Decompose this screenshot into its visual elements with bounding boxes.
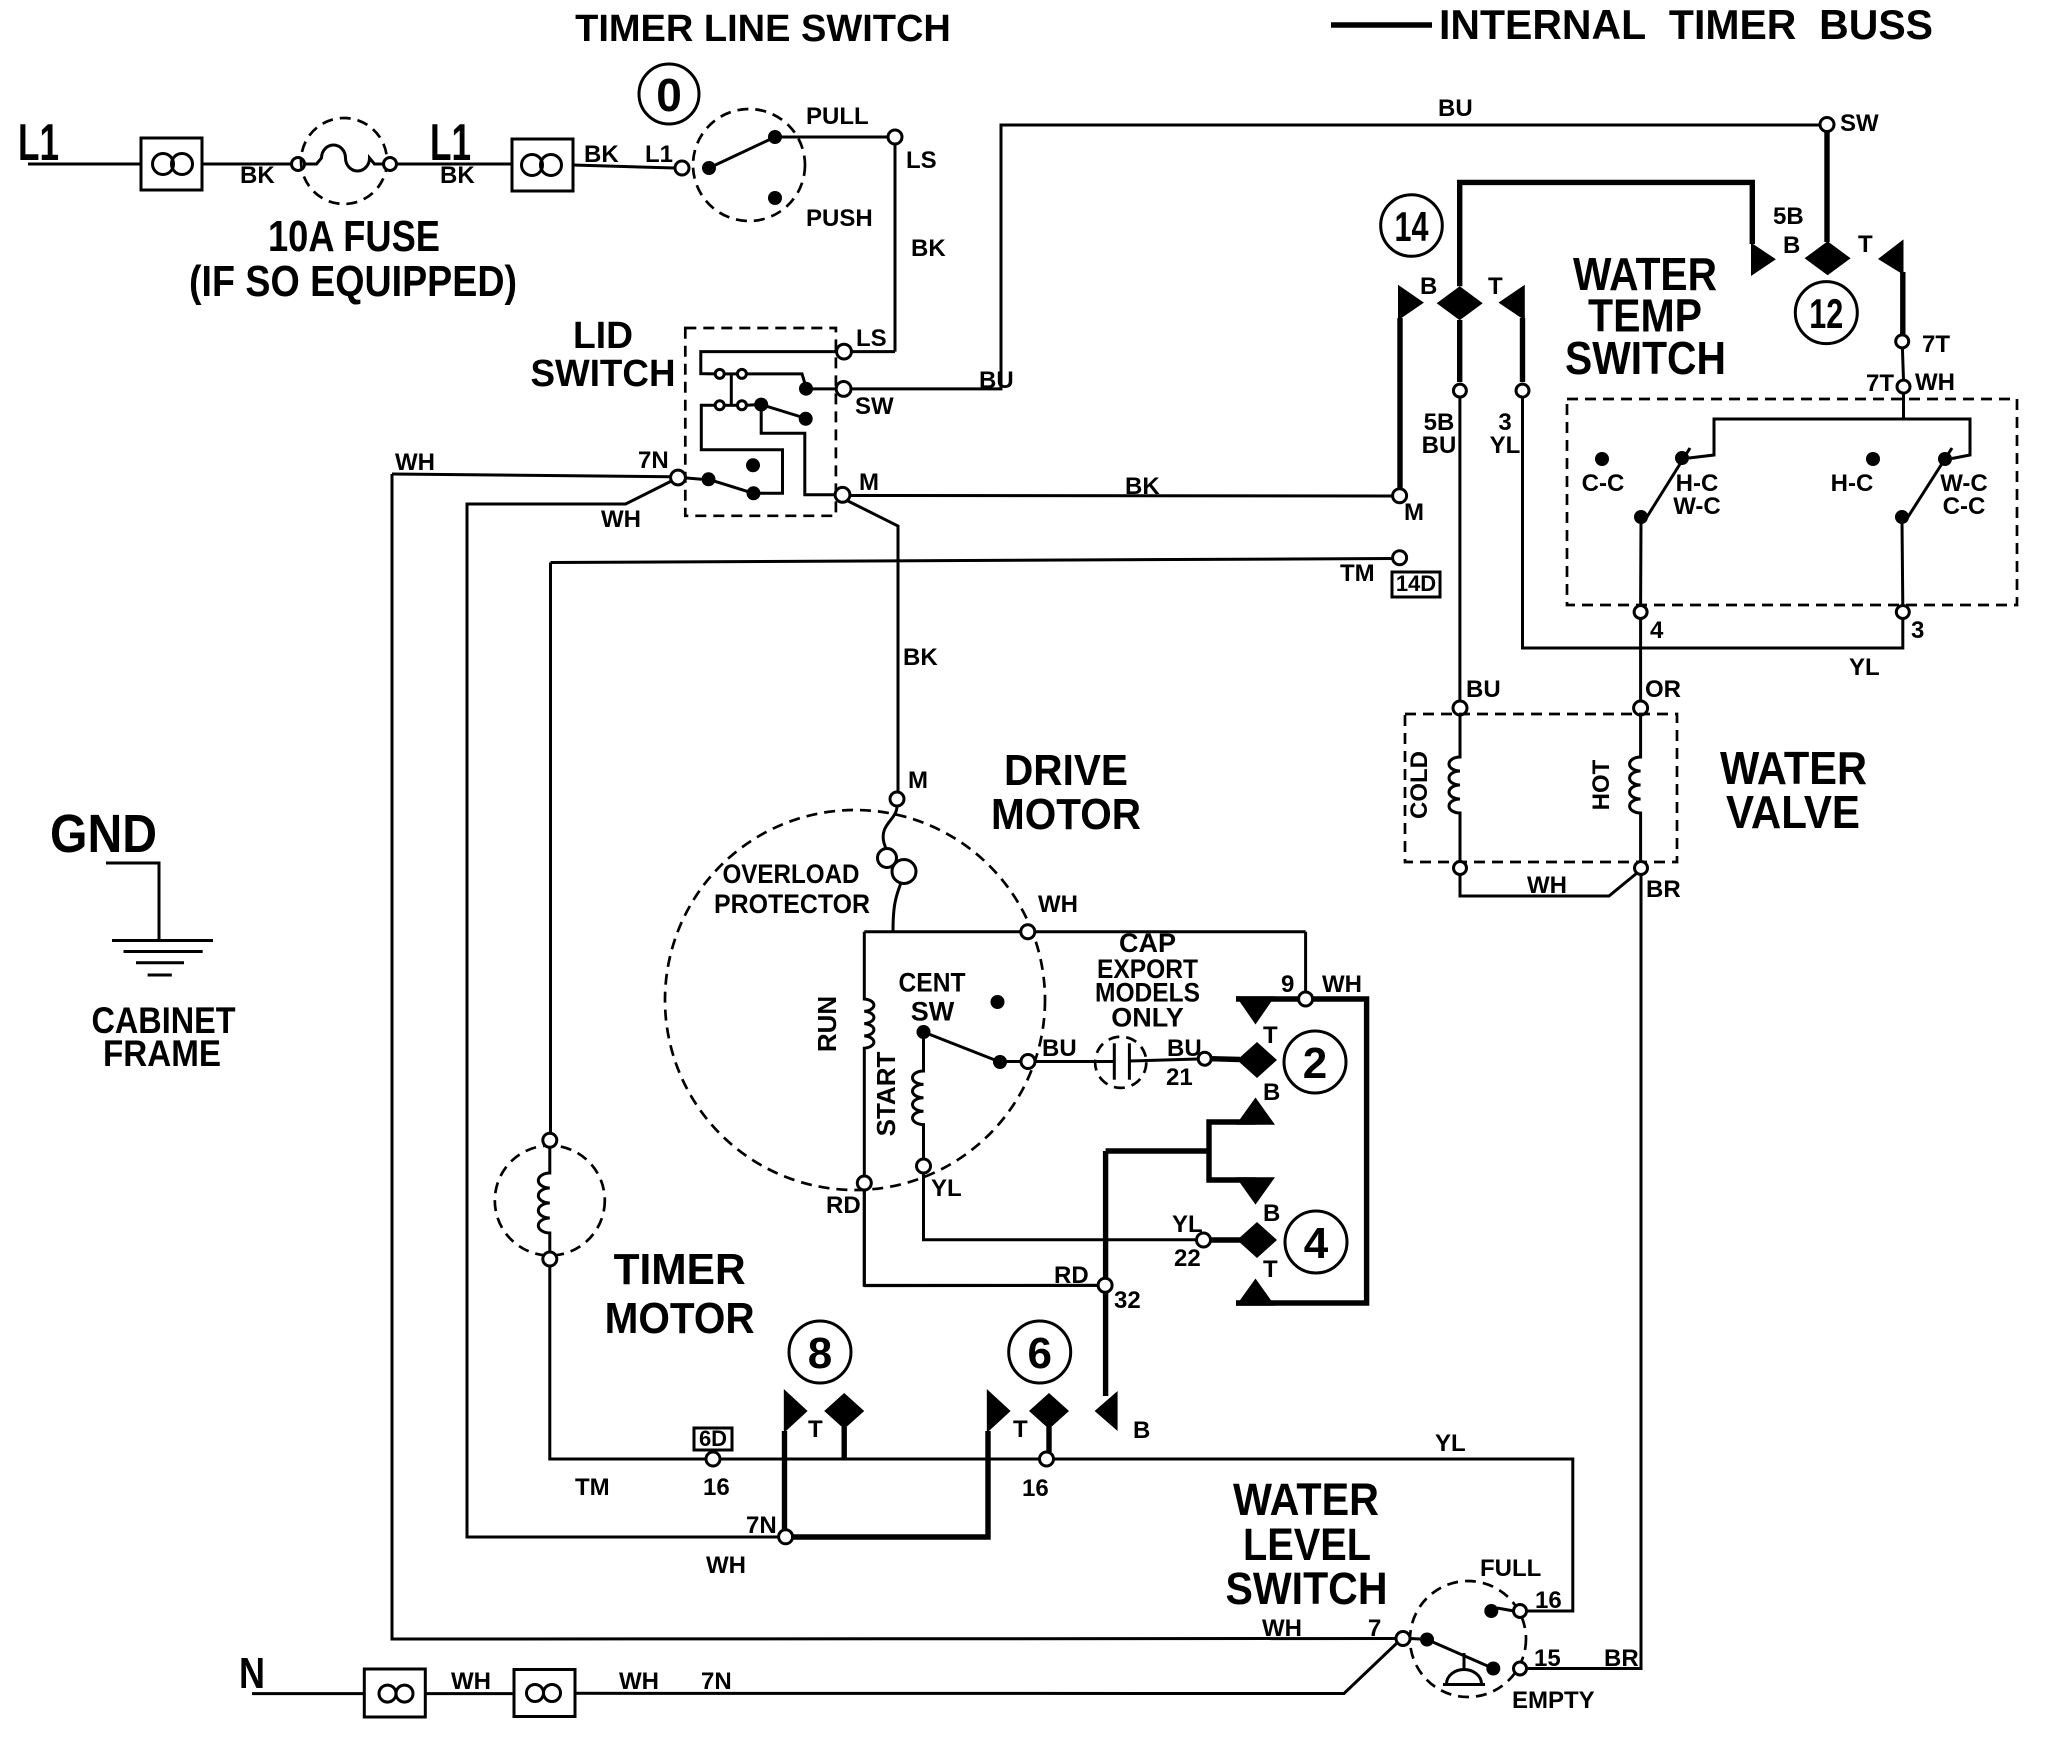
wire BK from M down to drive motor xyxy=(846,500,938,792)
svg-text:RD: RD xyxy=(1054,1262,1089,1289)
fuse 10A terminal left xyxy=(292,158,305,171)
wire 7T WH into switch crossbar xyxy=(1689,393,1904,458)
pivot circle row2 a xyxy=(715,401,724,410)
svg-text:LID: LID xyxy=(573,315,633,357)
contact 14 triangle T side xyxy=(1488,273,1525,320)
legend: internal timer buss sample line xyxy=(1331,22,1432,27)
timer contact diamond 4 xyxy=(1237,1222,1277,1258)
wire row2 to moving contact xyxy=(746,403,756,407)
wire BK connector2 to timer line switch xyxy=(573,141,675,168)
capacitor plates xyxy=(1114,1043,1129,1079)
svg-text:T: T xyxy=(1858,231,1873,258)
timer block 2/4 outline (buss) xyxy=(1236,999,1367,1303)
pivot circle row1 b xyxy=(737,369,746,378)
svg-text:C-C: C-C xyxy=(1582,470,1625,497)
wire 7T to 7T WH xyxy=(1902,348,1903,380)
water valve dashed box xyxy=(1405,714,1677,862)
title TIMER MOTOR xyxy=(605,1245,755,1343)
svg-text:RUN: RUN xyxy=(812,996,842,1052)
bracket triangle down B xyxy=(1236,1177,1280,1227)
wire buss diamond 14 down to 5B terminal xyxy=(1457,320,1462,382)
terminal SW timer xyxy=(1820,110,1879,137)
svg-text:PROTECTOR: PROTECTOR xyxy=(714,889,870,919)
svg-text:9: 9 xyxy=(1281,971,1294,998)
label OVERLOAD PROTECTOR xyxy=(714,859,870,919)
wire link row1 to row2 xyxy=(730,374,733,405)
wire 7 to dot xyxy=(1410,1637,1420,1641)
timer contact diamond 2 xyxy=(1237,1042,1277,1078)
wire BU from SW to top right xyxy=(851,95,1820,394)
svg-text:SWITCH: SWITCH xyxy=(1226,1563,1388,1614)
label YL 22 xyxy=(1172,1211,1203,1272)
svg-text:WATER: WATER xyxy=(1233,1474,1379,1525)
wire BK from M terminal to timer M xyxy=(850,473,1393,500)
svg-text:BK: BK xyxy=(584,141,619,168)
fuse label 10A FUSE (IF SO EQUIPPED) xyxy=(189,212,517,306)
wire buss diamond 6 to 16 terminal xyxy=(1046,1427,1051,1452)
terminal BU cent switch xyxy=(1021,1035,1077,1069)
svg-text:M: M xyxy=(1404,499,1424,526)
svg-text:GND: GND xyxy=(50,804,157,864)
wire row2 link xyxy=(724,404,737,407)
svg-text:PUSH: PUSH xyxy=(806,205,873,232)
contact 14 diamond xyxy=(1437,286,1483,320)
svg-text:WH: WH xyxy=(706,1552,746,1579)
svg-text:OR: OR xyxy=(1645,676,1681,703)
wire dot to terminal 3 xyxy=(1901,522,1905,606)
timer block bottom triangle T xyxy=(1236,1256,1278,1306)
wire buss T side 12 down to 7T xyxy=(1900,272,1905,334)
svg-text:14D: 14D xyxy=(1396,571,1436,596)
connector plug symbol (L1 line) xyxy=(141,138,202,190)
pivot circle row1 a xyxy=(715,369,724,378)
PUSH contact dot xyxy=(768,191,782,205)
switch arm bottom xyxy=(709,479,754,493)
timer cam circle 2 xyxy=(1284,1031,1346,1093)
capacitor dashed body xyxy=(1095,1037,1146,1088)
svg-text:PULL: PULL xyxy=(806,103,869,130)
svg-text:6: 6 xyxy=(1027,1329,1051,1378)
terminal 7N buss xyxy=(706,1512,793,1579)
wire TM down to timer motor xyxy=(549,563,552,1134)
cent switch pivot dot xyxy=(917,1025,931,1039)
svg-text:8: 8 xyxy=(808,1329,832,1378)
terminal 16 water level xyxy=(1514,1587,1562,1618)
svg-text:TIMER LINE SWITCH: TIMER LINE SWITCH xyxy=(575,8,951,50)
svg-text:LS: LS xyxy=(906,147,937,174)
wire BK connector to fuse xyxy=(202,162,292,189)
drive motor dashed body xyxy=(665,810,1045,1190)
svg-text:BR: BR xyxy=(1646,876,1681,903)
wire WH motor to terminal 9 xyxy=(1304,932,1307,993)
timer cam circle 6 xyxy=(1009,1321,1071,1383)
wire BR down to water level switch xyxy=(1527,875,1642,1673)
svg-text:BU: BU xyxy=(1422,432,1457,459)
terminal 22 circle xyxy=(1197,1233,1211,1247)
wire START winding xyxy=(912,1038,923,1159)
fuse 10A element xyxy=(305,145,384,171)
svg-text:CENT: CENT xyxy=(899,968,966,998)
svg-text:WH: WH xyxy=(395,449,435,476)
svg-text:WH: WH xyxy=(1038,891,1078,918)
connector plug symbol (N line) xyxy=(364,1669,425,1717)
terminal SW lid switch xyxy=(836,382,894,421)
svg-text:EMPTY: EMPTY xyxy=(1512,1687,1595,1714)
7 moving contact dot xyxy=(1420,1633,1434,1647)
svg-text:6D: 6D xyxy=(699,1426,727,1451)
terminal 16 contact 6 xyxy=(1022,1452,1054,1502)
contact dot SW xyxy=(799,382,813,396)
ground lead wire xyxy=(106,863,159,941)
left switch arm top dot xyxy=(1675,451,1689,465)
wire WH connector to connector 2 xyxy=(425,1668,514,1695)
svg-text:SW: SW xyxy=(855,393,894,420)
svg-text:7N: 7N xyxy=(746,1512,777,1539)
terminal YL drive motor xyxy=(917,1159,962,1202)
svg-text:WH: WH xyxy=(1322,971,1362,998)
overload protector element xyxy=(878,806,917,932)
wire buss T side down to 3YL terminal xyxy=(1520,318,1525,382)
terminal M timer xyxy=(1393,489,1424,526)
wire FULL dot to 16 terminal xyxy=(1497,1608,1514,1611)
terminal 3 water temp xyxy=(1896,606,1924,645)
fuse 10A terminal right xyxy=(384,158,397,171)
svg-text:12: 12 xyxy=(1809,290,1843,337)
title DRIVE MOTOR xyxy=(991,746,1141,839)
bracket triangle up B xyxy=(1236,1098,1275,1125)
open contact dot row2 xyxy=(799,412,813,426)
timer motor bottom terminal xyxy=(543,1252,557,1266)
title WATER VALVE xyxy=(1720,742,1867,838)
label CAP EXPORT MODELS ONLY xyxy=(1095,928,1200,1033)
wire buss 7N to contact 6 xyxy=(791,1431,988,1537)
svg-text:YL: YL xyxy=(1172,1211,1203,1238)
svg-text:L1: L1 xyxy=(645,141,673,168)
right switch moving dot xyxy=(1895,510,1909,524)
HOT solenoid winding xyxy=(1588,715,1641,862)
wire buss B side down to M xyxy=(1397,318,1402,489)
left switch arm xyxy=(1645,448,1690,520)
svg-text:HOT: HOT xyxy=(1588,759,1615,810)
svg-text:YL: YL xyxy=(1849,654,1880,681)
left switch moving dot xyxy=(1634,510,1648,524)
svg-text:YL: YL xyxy=(931,1175,962,1202)
svg-text:BK: BK xyxy=(1125,473,1160,500)
float symbol xyxy=(1443,1653,1485,1685)
timer block middle bracket (buss) xyxy=(1209,1122,1256,1180)
svg-text:ONLY: ONLY xyxy=(1111,1003,1184,1033)
svg-text:2: 2 xyxy=(1303,1039,1327,1088)
terminal LS of timer line switch xyxy=(888,130,937,174)
timer block top triangle T xyxy=(1236,996,1278,1049)
svg-text:FULL: FULL xyxy=(1480,1555,1541,1582)
svg-text:B: B xyxy=(1133,1417,1150,1444)
label H-C W-C xyxy=(1673,470,1721,520)
cent switch open contact dot xyxy=(991,995,1005,1009)
title LID SWITCH xyxy=(531,315,676,395)
wire 21 to diamond 2 (buss) xyxy=(1211,1056,1240,1062)
svg-text:M: M xyxy=(908,767,928,794)
timer cam circle 0 xyxy=(639,64,699,124)
terminal 5B BU xyxy=(1422,384,1467,459)
switch arm to PULL contact xyxy=(709,137,775,168)
svg-text:BU: BU xyxy=(1167,1035,1202,1062)
contact 12 triangle T side xyxy=(1858,231,1904,275)
svg-text:4: 4 xyxy=(1650,617,1664,644)
svg-text:RD: RD xyxy=(826,1192,861,1219)
svg-text:32: 32 xyxy=(1114,1287,1141,1314)
wire BK from LS down to lid switch xyxy=(851,144,946,352)
wire 22 to diamond 4 (buss) xyxy=(1211,1237,1241,1242)
wire buss contact 14 to contact 12 xyxy=(1460,182,1753,286)
terminal 7 water level xyxy=(1368,1615,1410,1646)
wire buss 32 vertical xyxy=(1103,1151,1108,1396)
wire TM horizontal to timer 14D xyxy=(551,559,1393,588)
svg-text:BU: BU xyxy=(1042,1035,1077,1062)
cent switch moving contact dot xyxy=(993,1055,1007,1069)
svg-text:START: START xyxy=(871,1052,901,1137)
svg-text:N: N xyxy=(239,1649,265,1698)
contact 8 diamond xyxy=(824,1393,864,1429)
svg-text:MOTOR: MOTOR xyxy=(991,790,1141,839)
svg-text:B: B xyxy=(1783,232,1800,259)
timer motor winding xyxy=(538,1147,550,1252)
switch common contact dot xyxy=(702,161,716,175)
moving contact dot row2 xyxy=(754,398,768,412)
svg-text:SW: SW xyxy=(911,997,955,1027)
svg-text:M: M xyxy=(859,469,879,496)
terminal LS lid switch xyxy=(837,325,887,359)
wire N to connector xyxy=(252,1692,364,1695)
svg-text:BK: BK xyxy=(240,162,275,189)
right switch arm top dot xyxy=(1938,452,1952,466)
svg-text:MOTOR: MOTOR xyxy=(605,1294,755,1343)
wire PULL to LS terminal xyxy=(775,136,888,139)
right switch arm xyxy=(1906,448,1952,520)
terminal M lid switch xyxy=(835,469,879,502)
svg-text:INTERNAL TIMER BUSS: INTERNAL TIMER BUSS xyxy=(1439,1,1933,48)
wire fuse to connector 2 xyxy=(397,162,513,189)
contact dot C-C left xyxy=(1582,452,1625,497)
timer cam circle 12 xyxy=(1795,282,1857,344)
wire buss 32 into bracket xyxy=(1106,1148,1209,1153)
fuse 10A dashed body xyxy=(301,118,387,204)
svg-text:VALVE: VALVE xyxy=(1726,786,1860,838)
contact 6 triangle B side xyxy=(1095,1391,1151,1444)
wire LS feed inside lid switch xyxy=(701,352,837,374)
svg-text:14: 14 xyxy=(1395,203,1429,250)
contact dot bottom arm end xyxy=(747,486,761,500)
wire row1 link xyxy=(724,372,737,375)
label CENT SW xyxy=(899,968,966,1027)
wire row2 dot to M terminal xyxy=(761,405,835,495)
wire crossbar right drop xyxy=(1904,419,1971,459)
cent switch arm xyxy=(924,1032,1001,1062)
svg-text:SWITCH: SWITCH xyxy=(1565,332,1726,384)
wire buss diamond 8 to TM line xyxy=(842,1427,847,1459)
terminal M drive motor xyxy=(890,767,928,806)
svg-text:OVERLOAD: OVERLOAD xyxy=(723,859,860,889)
terminal 4 water temp xyxy=(1634,606,1664,645)
wire OR terminal 4 down to valve xyxy=(1641,619,1681,704)
svg-text:WH: WH xyxy=(601,506,641,533)
timer cam circle 14 xyxy=(1381,195,1443,257)
wire RD to timer 32 xyxy=(864,1190,1097,1285)
svg-text:BU: BU xyxy=(1466,676,1501,703)
pivot circle row2 b xyxy=(737,401,746,410)
title WATER LEVEL SWITCH xyxy=(1226,1474,1388,1614)
wire motor bottom side RD xyxy=(864,1284,1098,1287)
ground symbol xyxy=(112,941,213,976)
wire WH 7N to water level 7 xyxy=(575,1642,1398,1695)
svg-text:W-C: W-C xyxy=(1673,493,1721,520)
contact 6 triangle T side xyxy=(987,1389,1011,1433)
terminal 3 YL xyxy=(1490,384,1529,459)
water level switch arm xyxy=(1427,1640,1493,1669)
terminal L1 of timer line switch xyxy=(675,161,689,175)
svg-text:DRIVE: DRIVE xyxy=(1004,746,1128,795)
contact 12 diamond xyxy=(1805,241,1851,275)
svg-text:(IF SO EQUIPPED): (IF SO EQUIPPED) xyxy=(189,257,517,306)
svg-text:T: T xyxy=(1488,273,1503,300)
svg-text:COLD: COLD xyxy=(1406,751,1433,819)
svg-text:BK: BK xyxy=(903,644,938,671)
water level switch dashed body xyxy=(1410,1581,1526,1697)
terminal COLD bottom xyxy=(1454,862,1467,875)
terminal BR water valve xyxy=(1635,862,1648,875)
svg-text:TM: TM xyxy=(1340,560,1375,587)
svg-text:LS: LS xyxy=(856,325,887,352)
svg-text:BK: BK xyxy=(440,162,475,189)
label CABINET FRAME xyxy=(92,1000,236,1074)
svg-text:T: T xyxy=(1263,1022,1278,1049)
connector plug symbol 2 (N line) xyxy=(514,1670,575,1717)
wire buss SW down to diamond 12 xyxy=(1824,132,1829,243)
svg-text:7N: 7N xyxy=(701,1668,732,1695)
switch arm row2 xyxy=(761,405,803,418)
wire 7N terminal to arm xyxy=(685,478,701,479)
svg-text:T: T xyxy=(1263,1256,1278,1283)
wire to BU terminal xyxy=(1006,1060,1021,1063)
svg-text:T: T xyxy=(808,1416,823,1443)
svg-text:WH: WH xyxy=(1527,872,1567,899)
svg-text:7T: 7T xyxy=(1922,331,1950,358)
terminal TM timer xyxy=(1393,551,1407,565)
EMPTY contact dot xyxy=(1486,1662,1500,1676)
label box 14D xyxy=(1392,571,1440,597)
wire 5B BU down to valve xyxy=(1460,397,1501,703)
wire buss contact 8 down to 7N xyxy=(782,1431,787,1537)
svg-text:3: 3 xyxy=(1911,617,1924,644)
connector plug symbol 2 (L1 line) xyxy=(512,139,573,191)
wire motor left side with RUN winding xyxy=(864,932,874,1286)
wire motor top side with WH terminal xyxy=(864,891,1305,939)
svg-text:B: B xyxy=(1263,1079,1280,1106)
svg-text:16: 16 xyxy=(1022,1475,1049,1502)
wire dot to terminal 4 xyxy=(1639,522,1642,606)
svg-text:YL: YL xyxy=(1435,1430,1466,1457)
svg-text:BU: BU xyxy=(1438,95,1473,122)
wire L1 to connector xyxy=(28,163,141,166)
wire WH left vertical to water level switch xyxy=(392,474,1396,1639)
svg-text:FRAME: FRAME xyxy=(103,1033,221,1074)
svg-text:22: 22 xyxy=(1174,1245,1201,1272)
wire WH from 7N down to 7N buss xyxy=(467,481,778,1537)
contact dot H-C right xyxy=(1831,452,1880,497)
terminal 6D on TM line xyxy=(575,1426,732,1501)
terminal 7N lid switch xyxy=(638,447,685,485)
svg-text:WH: WH xyxy=(1915,369,1955,396)
terminal RD drive motor xyxy=(826,1176,871,1219)
terminal 7T WH xyxy=(1866,369,1955,397)
wire BU capacitor to 21 xyxy=(1129,1035,1201,1091)
svg-text:BR: BR xyxy=(1604,1645,1639,1672)
terminal 21 circle xyxy=(1198,1052,1211,1065)
wire row2 left leg xyxy=(701,405,782,493)
svg-text:BK: BK xyxy=(911,235,946,262)
svg-text:C-C: C-C xyxy=(1943,493,1986,520)
svg-text:15: 15 xyxy=(1534,1645,1561,1672)
timer motor top terminal xyxy=(543,1133,557,1147)
svg-text:B: B xyxy=(1263,1200,1280,1227)
contact 12 triangle B side xyxy=(1751,203,1804,276)
wire TM line 6D to 16 xyxy=(720,1458,1039,1461)
contact 6 diamond xyxy=(1029,1393,1069,1429)
lid switch dashed box xyxy=(685,328,836,516)
wire YL to timer 22 xyxy=(924,1173,1197,1240)
svg-text:TM: TM xyxy=(575,1474,610,1501)
wire WH cold to BR junction xyxy=(1460,872,1681,903)
terminal OR water valve xyxy=(1634,701,1648,715)
svg-text:BU: BU xyxy=(979,367,1014,394)
wire dot to SW terminal xyxy=(806,387,836,390)
wire BU into capacitor xyxy=(1035,1060,1114,1063)
COLD solenoid winding xyxy=(1406,715,1460,862)
svg-text:H-C: H-C xyxy=(1831,470,1874,497)
svg-text:4: 4 xyxy=(1304,1219,1329,1268)
svg-text:21: 21 xyxy=(1166,1064,1193,1091)
wire row1 to SW contact xyxy=(746,374,806,387)
terminal 15 water level xyxy=(1514,1645,1561,1675)
wire YL 3YL terminal to terminal 3 xyxy=(1523,397,1903,681)
svg-text:5B: 5B xyxy=(1773,203,1804,230)
svg-text:SWITCH: SWITCH xyxy=(531,353,676,395)
svg-text:0: 0 xyxy=(656,69,682,121)
svg-text:SW: SW xyxy=(1840,110,1879,137)
svg-text:WH: WH xyxy=(451,1668,491,1695)
svg-text:7T: 7T xyxy=(1866,370,1894,397)
svg-text:WH: WH xyxy=(1262,1615,1302,1642)
svg-text:TIMER: TIMER xyxy=(614,1245,746,1294)
svg-text:YL: YL xyxy=(1490,432,1521,459)
timer cam circle 8 xyxy=(789,1321,851,1383)
timer cam circle 4 xyxy=(1285,1211,1347,1273)
contact 14 triangle B side xyxy=(1398,273,1437,320)
label W-C C-C xyxy=(1940,470,1988,520)
PULL contact dot xyxy=(768,130,782,144)
terminal BU water valve xyxy=(1453,701,1467,715)
timer line switch dashed body xyxy=(693,109,805,221)
terminal 9 WH xyxy=(1281,971,1362,1006)
svg-text:7: 7 xyxy=(1368,1615,1381,1642)
svg-text:16: 16 xyxy=(1535,1587,1562,1614)
terminal 7T xyxy=(1896,331,1951,358)
timer motor dashed body xyxy=(495,1146,605,1256)
svg-text:T: T xyxy=(1013,1416,1028,1443)
wire WH from 7N terminal going left xyxy=(392,449,671,477)
water temp switch dashed box xyxy=(1567,399,2017,605)
FULL contact dot xyxy=(1484,1604,1498,1618)
